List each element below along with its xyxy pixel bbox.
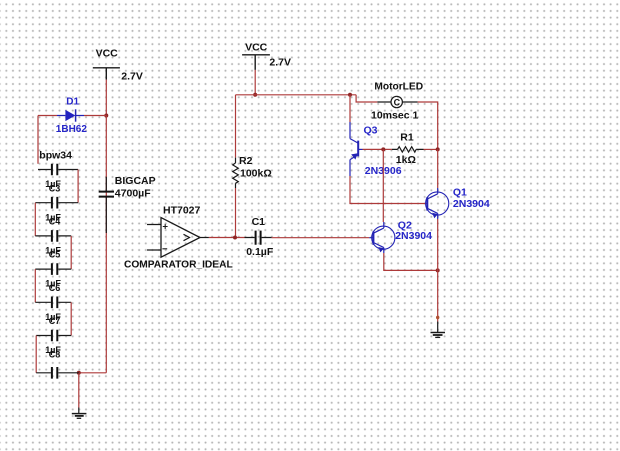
svg-text:C4: C4 xyxy=(49,217,61,227)
wire op-amp output to C1 xyxy=(209,237,245,239)
svg-text:0.1µF: 0.1µF xyxy=(246,246,274,258)
ground (right) xyxy=(431,322,446,338)
transistor Q1 2N3904 (NPN) xyxy=(426,187,490,220)
svg-text:C7: C7 xyxy=(49,316,61,326)
svg-text:HT7027: HT7027 xyxy=(163,204,201,216)
svg-text:2.7V: 2.7V xyxy=(269,57,291,69)
power VCC symbol (left) xyxy=(93,48,143,83)
svg-text:2N3904: 2N3904 xyxy=(453,198,490,210)
capacitor C6 1uF xyxy=(35,263,71,293)
label bpw34 xyxy=(39,149,72,161)
node junction D1 cathode / VCC rail xyxy=(104,114,108,118)
capacitor C7 1uF xyxy=(35,297,71,327)
MotorLED lamp symbol xyxy=(371,82,423,122)
ground (left) xyxy=(72,408,87,419)
svg-text:10msec 1: 10msec 1 xyxy=(371,110,418,122)
svg-text:bpw34: bpw34 xyxy=(39,149,72,161)
capacitor C9 xyxy=(36,367,79,379)
svg-text:C3: C3 xyxy=(49,183,61,193)
wire R1 right junction down to Q1 collector xyxy=(437,149,439,188)
svg-text:2.7V: 2.7V xyxy=(121,70,143,82)
wire D1 cathode to junction xyxy=(84,115,106,117)
node junction rail / Q3 collector xyxy=(348,93,352,97)
node junction emitters xyxy=(436,268,440,272)
wire rail corner to MotorLED xyxy=(356,95,377,102)
wire R2 bottom to op-amp output junction xyxy=(235,188,237,238)
svg-text:100kΩ: 100kΩ xyxy=(240,167,272,179)
svg-text:VCC: VCC xyxy=(96,48,119,60)
op-amp U1 HT7027 COMPARATOR_IDEAL xyxy=(124,204,233,270)
wire C7 right to C8 right xyxy=(70,302,72,335)
svg-text:C8: C8 xyxy=(49,349,61,359)
svg-text:BIGCAP: BIGCAP xyxy=(115,175,156,187)
svg-text:MotorLED: MotorLED xyxy=(374,82,423,93)
wire Q3 collector from rail junction xyxy=(349,95,351,122)
svg-text:C5: C5 xyxy=(49,250,61,260)
capacitor C3 1uF xyxy=(38,164,78,194)
svg-text:R1: R1 xyxy=(400,132,414,144)
wire C4 left to C5 left xyxy=(34,203,36,236)
wire C8 left to C9 left xyxy=(35,336,37,373)
capacitor C8 1uF xyxy=(36,330,71,360)
wire VCC mid stub down xyxy=(254,70,256,95)
power VCC symbol (middle) xyxy=(242,41,291,70)
wire vertical left rail through BIGCAP down to bottom xyxy=(105,116,107,373)
wire C6 left to C7 left xyxy=(34,269,36,302)
svg-text:Q3: Q3 xyxy=(364,125,378,137)
svg-text:Q1: Q1 xyxy=(453,187,467,199)
wire C5 right to C6 right xyxy=(70,236,72,269)
wire R1 right to vertical rail xyxy=(424,148,438,150)
diode D1 1BH62 xyxy=(56,96,88,135)
node wire end dot above ground xyxy=(436,316,439,319)
svg-text:2N3904: 2N3904 xyxy=(395,230,432,242)
wire D1 anode left xyxy=(38,116,57,164)
svg-text:4700µF: 4700µF xyxy=(115,188,151,200)
svg-text:VCC: VCC xyxy=(245,41,268,53)
capacitor C4 1uF xyxy=(35,197,78,227)
svg-text:COMPARATOR_IDEAL: COMPARATOR_IDEAL xyxy=(124,259,233,270)
wire rail left end down to R2 xyxy=(235,95,237,158)
wire C3 right to C4 right xyxy=(77,170,79,203)
wire VCC left stub to D1 junction xyxy=(105,80,107,116)
capacitor BIGCAP 4700uF xyxy=(99,175,156,233)
svg-text:C: C xyxy=(394,97,401,107)
svg-text:1kΩ: 1kΩ xyxy=(396,154,416,166)
wire VCC rail horizontal xyxy=(236,94,357,96)
wire Q3 base to R1 left junction xyxy=(363,148,392,150)
capacitor C1 0.1uF xyxy=(245,216,274,258)
wire MotorLED right to top-right corner down xyxy=(418,102,438,149)
wire bottom-left horizontal to junction xyxy=(79,372,107,374)
node junction VCC rail xyxy=(253,93,257,97)
wire Q2 collector up to R1 left junction xyxy=(382,149,384,222)
node junction R1 right / motor branch xyxy=(436,147,440,151)
svg-text:R2: R2 xyxy=(239,155,253,167)
wire Q3 emitter down and right to Q1 base xyxy=(350,176,427,204)
wire Q2 emitter down and right xyxy=(384,253,438,270)
wire junction to ground (left) xyxy=(78,373,80,408)
svg-text:C6: C6 xyxy=(49,283,61,293)
resistor R2 100k xyxy=(233,155,272,188)
capacitor C5 1uF xyxy=(35,230,71,260)
transistor Q3 2N3906 (PNP) xyxy=(350,122,402,177)
node junction R2/output xyxy=(233,236,237,240)
node junction bottom-left xyxy=(77,371,81,375)
resistor R1 1k xyxy=(392,132,424,167)
wire Q1 emitter down to ground xyxy=(437,219,439,322)
node junction R1 left / Q2 collector xyxy=(381,147,385,151)
transistor Q2 2N3904 (NPN) xyxy=(369,220,432,254)
wire C1 to Q2 base xyxy=(272,237,370,239)
svg-text:1BH62: 1BH62 xyxy=(56,124,88,135)
svg-text:D1: D1 xyxy=(66,96,79,107)
svg-text:C1: C1 xyxy=(252,216,266,228)
